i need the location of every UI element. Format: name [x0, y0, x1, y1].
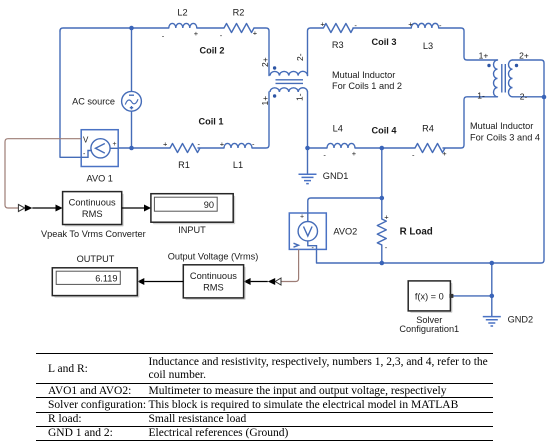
wire AVO2 top loop: [308, 198, 382, 213]
node junction (544,97): [542, 95, 547, 100]
svg-text:R2: R2: [233, 8, 245, 18]
node junction (491.8,295.9): [490, 294, 495, 299]
display INPUT: [151, 194, 235, 225]
svg-text:+: +: [352, 149, 357, 158]
svg-text:GND1: GND1: [323, 171, 349, 181]
wire right transformer to right edge: [317, 60, 545, 263]
svg-text:+: +: [194, 29, 199, 38]
svg-text:1+: 1+: [479, 51, 489, 61]
svg-text:1+: 1+: [260, 96, 270, 106]
svg-text:OUTPUT: OUTPUT: [77, 254, 115, 264]
svg-text:Coil 1: Coil 1: [198, 117, 223, 127]
table row 3: Solver configuration: [48, 399, 146, 411]
inductor L1: [224, 143, 252, 148]
svg-text:f(x) = 0: f(x) = 0: [415, 291, 444, 301]
svg-text:For Coils 1 and 2: For Coils 1 and 2: [332, 81, 402, 91]
ground GND2: [483, 317, 501, 326]
voltmeter AVO2: [289, 213, 326, 252]
mutual inductor U2 (coils 3 and 4): [494, 60, 513, 97]
svg-text:GND2: GND2: [508, 315, 534, 325]
svg-text:+: +: [442, 149, 447, 158]
svg-text:AC source: AC source: [72, 96, 115, 106]
svg-text:+: +: [253, 29, 258, 38]
U1 polarity dot winding 1: [273, 94, 276, 97]
signal line to RMS2: [251, 281, 268, 283]
svg-text:L2: L2: [177, 8, 187, 18]
resistor R1: [170, 144, 200, 153]
node junction (491.8,263): [490, 261, 495, 266]
port polarity marks: [162, 20, 447, 253]
signal line RMS2 to OUTPUT display: [144, 281, 183, 283]
svg-text:R3: R3: [332, 40, 344, 50]
resistor R2: [224, 24, 254, 33]
physical signal wire from AVO1: [5, 139, 81, 208]
svg-text:-: -: [385, 243, 388, 252]
wire Coil 1 rail: [118, 92, 269, 148]
U2 winding 2 (right): [509, 60, 513, 97]
U2 polarity dot winding 2: [515, 64, 518, 67]
signal line to RMS1: [32, 207, 55, 209]
table rules: [36, 353, 493, 355]
table row 4: R load: [48, 413, 82, 425]
svg-text:AVO 1: AVO 1: [87, 174, 113, 184]
wire R Load vertical: [381, 148, 383, 263]
wire Coil 3 rail: [308, 28, 498, 76]
svg-text:+: +: [320, 20, 325, 29]
wire AC source vertical: [131, 28, 133, 148]
inductor L3: [411, 23, 438, 28]
svg-text:2-: 2-: [520, 92, 528, 102]
svg-text:1-: 1-: [477, 91, 485, 101]
svg-text:+: +: [408, 20, 413, 29]
wire Coil 4 rail: [308, 92, 498, 148]
signal line RMS1 to INPUT display: [122, 207, 144, 209]
wire solver to node: [453, 295, 492, 297]
svg-text:INPUT: INPUT: [178, 225, 206, 235]
inductor L2: [169, 23, 197, 28]
node junction (381.8,263): [380, 261, 385, 266]
svg-text:R1: R1: [178, 160, 190, 170]
node junction (131.5,28): [129, 26, 134, 31]
svg-text:+: +: [384, 213, 389, 222]
svg-text:RMS: RMS: [82, 209, 103, 219]
mutual inductor U1 (coils 1 and 2): [270, 71, 307, 92]
svg-text:Mutual Inductor: Mutual Inductor: [470, 121, 533, 131]
svg-text:Continuous: Continuous: [190, 271, 237, 281]
node junction (381.8,198): [380, 196, 385, 201]
svg-text:+: +: [220, 140, 225, 149]
wire GND1 drop: [307, 148, 309, 174]
node junction (381.8,148): [380, 146, 385, 151]
svg-text:-: -: [162, 32, 165, 41]
svg-text:+: +: [163, 140, 168, 149]
U2 polarity dot winding 1: [487, 64, 490, 67]
block Continuous RMS 1: [63, 192, 124, 227]
svg-text:L1: L1: [233, 160, 243, 170]
inductor L4: [327, 143, 355, 148]
U1 winding 2 (top): [270, 71, 307, 75]
U1 polarity dot winding 2: [273, 66, 276, 69]
block Continuous RMS 2: [183, 265, 245, 300]
resistor R Load: [377, 219, 386, 245]
AC source V1: [122, 91, 142, 111]
svg-text:-: -: [220, 31, 223, 40]
PS-Simulink converter (output): [268, 278, 281, 285]
physical signal wire from AVO2: [281, 249, 299, 281]
svg-text:Coil 4: Coil 4: [371, 125, 397, 135]
U1 winding 1 (bottom): [270, 88, 307, 92]
svg-text:1-: 1-: [295, 93, 305, 101]
U2 core: [502, 64, 506, 93]
display OUTPUT: [52, 268, 139, 298]
wire left rail: [60, 31, 81, 157]
table row 1: L and R: [48, 363, 88, 375]
svg-text:Coil 2: Coil 2: [199, 46, 224, 56]
block Solver Configuration1: [408, 281, 453, 313]
svg-text:Mutual Inductor: Mutual Inductor: [332, 70, 395, 80]
table row 2: AVO1 and AVO2: [48, 385, 131, 397]
voltmeter AVO1: [81, 130, 118, 167]
svg-text:For Coils 3 and 4: For Coils 3 and 4: [470, 133, 540, 143]
svg-text:2+: 2+: [519, 51, 529, 61]
svg-text:2-: 2-: [295, 53, 305, 61]
node junction GND1 (307.5,148): [305, 146, 310, 151]
svg-text:6.119: 6.119: [95, 273, 117, 283]
svg-text:-: -: [252, 140, 255, 149]
svg-text:+: +: [113, 141, 117, 148]
svg-text:R4: R4: [422, 124, 434, 134]
svg-text:-: -: [412, 151, 415, 160]
svg-text:Vpeak To Vrms Converter: Vpeak To Vrms Converter: [41, 229, 146, 239]
svg-text:Configuration1: Configuration1: [399, 324, 459, 334]
svg-text:R Load: R Load: [400, 226, 433, 237]
svg-text:V: V: [83, 136, 89, 145]
svg-text:L3: L3: [423, 41, 433, 51]
svg-text:Output Voltage (Vrms): Output Voltage (Vrms): [168, 252, 259, 262]
table row 5: GND 1 and 2: [48, 427, 113, 439]
resistor R3: [323, 24, 353, 33]
resistor R4: [415, 144, 445, 153]
svg-text:-: -: [323, 151, 326, 160]
ground GND1: [299, 174, 317, 183]
svg-text:90: 90: [204, 200, 214, 210]
U1 core: [276, 80, 304, 84]
U2 winding 1 (left): [494, 60, 498, 97]
node junction (131.5,148): [129, 146, 134, 151]
svg-text:+: +: [300, 214, 304, 221]
wire GND2 drop: [491, 263, 493, 316]
wire top rail Coil 2: [60, 28, 269, 76]
svg-text:L4: L4: [333, 124, 343, 134]
svg-text:Continuous: Continuous: [69, 198, 116, 208]
svg-text:AVO2: AVO2: [333, 226, 357, 236]
svg-text:-: -: [198, 140, 201, 149]
svg-text:Coil 3: Coil 3: [371, 37, 396, 47]
PS-Simulink converter (input): [18, 205, 32, 212]
svg-text:RMS: RMS: [203, 283, 224, 293]
svg-text:2+: 2+: [260, 57, 270, 67]
